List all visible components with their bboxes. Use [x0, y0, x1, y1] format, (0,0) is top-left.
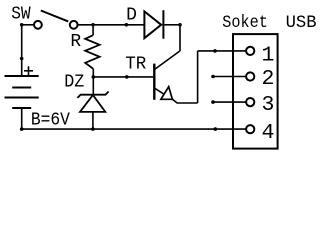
node dot switch corner — [20, 23, 24, 27]
node dot collector corner — [178, 23, 182, 27]
battery B plate short 1 — [12, 87, 31, 89]
node dot top rail mid — [125, 23, 129, 27]
zener DZ cathode bar with ticks — [77, 92, 108, 98]
svg-text:Soket: Soket — [222, 13, 267, 33]
wire emitter horizontal — [177, 102, 197, 104]
transistor TR emitter segment 1 — [154, 88, 164, 95]
node dot pin2 wire — [211, 75, 215, 79]
wire emitter riser — [197, 51, 199, 103]
wire bottom rail — [22, 128, 247, 130]
wire to pin 3 — [212, 101, 247, 103]
svg-text:TR: TR — [125, 55, 146, 75]
wire top rail switch to diode — [78, 24, 145, 26]
switch SW right contact — [70, 21, 78, 29]
svg-text:1: 1 — [262, 43, 275, 67]
node dot left wire mid — [20, 57, 24, 61]
switch SW left contact — [34, 21, 42, 29]
wire transistor base — [93, 76, 153, 78]
USB socket box — [233, 34, 278, 149]
battery plus sign — [24, 66, 33, 75]
wire to pin 1 — [198, 50, 247, 52]
wire battery negative stub — [21, 108, 23, 129]
transistor TR base bar — [153, 64, 155, 100]
transistor TR emitter segment 2 — [172, 99, 177, 103]
node dot pin1 wire — [213, 49, 217, 53]
wire top-left horizontal to switch — [22, 24, 35, 26]
transistor TR emitter arrow — [161, 87, 173, 100]
svg-text:USB: USB — [286, 13, 317, 33]
wire collector vertical — [179, 25, 181, 51]
node dot zener tap — [92, 75, 96, 79]
node dot zener bottom — [91, 127, 95, 131]
svg-text:4: 4 — [262, 121, 275, 145]
node dot battery bottom — [20, 127, 24, 131]
svg-text:D: D — [126, 5, 137, 25]
node dot pin3 wire — [211, 100, 215, 104]
wire diode cathode to corner — [164, 24, 180, 26]
battery B plate short bottom — [12, 107, 31, 109]
node dot resistor tap — [91, 23, 95, 27]
wire to pin 2 — [212, 76, 247, 78]
battery B plate long 2 — [5, 97, 39, 99]
wire resistor top stub — [92, 25, 94, 35]
svg-text:2: 2 — [262, 67, 275, 91]
node dot rail right — [214, 127, 218, 131]
zener DZ triangle — [80, 95, 105, 112]
resistor R zigzag — [85, 35, 99, 69]
svg-text:B=6V: B=6V — [31, 111, 70, 131]
transistor TR collector — [154, 51, 180, 70]
svg-text:DZ: DZ — [64, 73, 84, 93]
svg-text:SW: SW — [11, 5, 31, 25]
switch SW lever — [41, 11, 68, 22]
pin 1 circle — [246, 47, 254, 55]
diode D triangle — [144, 11, 161, 38]
wire left vertical battery feed — [21, 25, 23, 76]
battery B plate long top — [5, 75, 39, 77]
pin 3 circle — [246, 98, 254, 106]
wire zener anode stub — [92, 112, 94, 129]
svg-text:R: R — [70, 32, 81, 52]
node dot base wire mid — [125, 75, 129, 79]
diode D cathode bar — [162, 10, 164, 39]
pin 2 circle — [246, 72, 254, 80]
svg-text:3: 3 — [262, 93, 275, 117]
wire resistor bottom to zener — [92, 69, 94, 95]
pin 4 circle — [246, 125, 254, 133]
